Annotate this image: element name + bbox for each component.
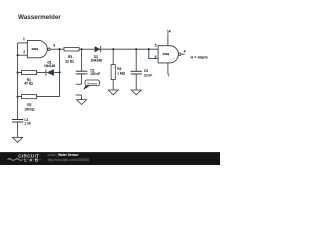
resistor R1 — [22, 70, 37, 74]
sensor callout bubble — [83, 80, 99, 90]
pin 14 stub — [167, 33, 169, 45]
svg-text:made | Water Sensor: made | Water Sensor — [48, 153, 80, 157]
wire C3 bottom stem — [135, 74, 137, 90]
wire R3 to D2 — [79, 48, 95, 50]
svg-text:4093: 4093 — [31, 47, 38, 51]
wire U1B pin6 corner — [149, 49, 158, 58]
svg-text:Wassermelder: Wassermelder — [18, 14, 61, 21]
svg-text:10 nF: 10 nF — [144, 74, 152, 78]
svg-text:R4: R4 — [117, 67, 121, 71]
capacitor C1 — [12, 120, 23, 123]
svg-text:22 kΩ: 22 kΩ — [65, 59, 74, 63]
sensor terminal top tick — [76, 83, 82, 85]
svg-text:1N4148: 1N4148 — [91, 58, 102, 62]
ground under C3 — [131, 90, 141, 95]
op-amp U1 gate A body — [27, 41, 50, 58]
svg-text:1 MΩ: 1 MΩ — [117, 71, 125, 75]
diode D2 — [95, 46, 102, 52]
wire feedback vertical — [59, 49, 61, 96]
wire C2 top stem — [81, 49, 83, 71]
footer bar — [0, 152, 220, 165]
sensor terminal bottom tick — [76, 94, 82, 96]
wire R1 right to D1 — [37, 72, 46, 74]
wire C2 bottom stem — [81, 74, 83, 84]
svg-text:14: 14 — [167, 30, 171, 34]
wire left rail — [17, 43, 19, 120]
svg-text:100 kΩ: 100 kΩ — [24, 108, 35, 112]
wire C1 bottom stem — [17, 122, 19, 137]
svg-text:5: 5 — [155, 44, 157, 48]
junction node dots — [17, 48, 150, 98]
svg-text:47 kΩ: 47 kΩ — [24, 81, 33, 85]
op-amp U1 gate B body — [158, 46, 181, 63]
ground under R4 — [108, 90, 118, 95]
capacitor C2 — [76, 71, 88, 74]
svg-text:http://circuitlab.com/c/285966: http://circuitlab.com/c/285966 — [48, 158, 90, 162]
pin 7 stub — [167, 63, 169, 74]
wire C3 top stem — [135, 49, 137, 71]
wire U1A output to R3 — [50, 48, 64, 50]
footer CircuitLab logo — [8, 154, 42, 163]
svg-text:3: 3 — [53, 44, 55, 48]
svg-text:1: 1 — [23, 37, 25, 41]
resistor R4 — [111, 65, 115, 80]
wire D1 to feedback rail — [54, 72, 60, 74]
wire R4 bottom stem — [112, 80, 114, 90]
U1B output stub — [181, 53, 185, 55]
wire pin2 stub — [18, 54, 28, 56]
svg-text:7: 7 — [168, 73, 170, 77]
svg-text:C3: C3 — [144, 69, 148, 73]
diode D1 — [46, 69, 54, 76]
resistor R3 — [64, 47, 79, 51]
svg-text:Sensor: Sensor — [87, 81, 98, 85]
svg-text:100 nF: 100 nF — [90, 72, 100, 76]
resistor R2 — [22, 95, 37, 99]
svg-text:2: 2 — [23, 50, 25, 54]
wire R1 left — [18, 72, 22, 74]
svg-text:R2: R2 — [27, 103, 31, 107]
svg-text:H = Alarm: H = Alarm — [191, 56, 208, 60]
labels — [23, 30, 208, 126]
svg-text:1 nF: 1 nF — [24, 121, 30, 125]
ground under C1 — [13, 137, 23, 142]
wire R4 top stem — [112, 49, 114, 64]
wire R2 right — [37, 96, 60, 98]
capacitor C3 — [131, 71, 142, 74]
svg-text:1N4148: 1N4148 — [44, 64, 55, 68]
ground under sensor — [77, 100, 87, 105]
wire R2 left — [18, 96, 22, 98]
wire pin1 stub — [18, 42, 28, 44]
svg-text:4: 4 — [184, 50, 186, 54]
wire D2 to U1B pin5 — [101, 48, 158, 50]
svg-text:LAB: LAB — [24, 157, 40, 162]
svg-text:6: 6 — [155, 55, 157, 59]
wire sensor to ground — [81, 95, 83, 100]
svg-text:4093: 4093 — [163, 52, 170, 56]
